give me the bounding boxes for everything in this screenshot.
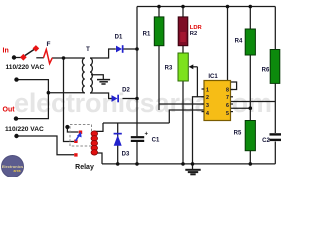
wire: R1 bottom vertical to pin3/pin4 lines: [158, 46, 160, 110]
switch blade: [25, 50, 34, 56]
svg-text:R5: R5: [234, 131, 242, 137]
wire: R2 top feed: [182, 7, 184, 18]
IC1 pin numbers left 1,2,3,4: [206, 88, 209, 117]
wire: center tap to ground: [91, 75, 103, 79]
node: top rail R2: [181, 5, 185, 9]
wire: R3 bottom to rail: [182, 81, 184, 164]
wire: relay output line horizontal: [103, 122, 169, 124]
svg-text:C2: C2: [262, 138, 270, 144]
wire: In upper terminal stub: [14, 57, 21, 59]
svg-text:D2: D2: [122, 88, 130, 94]
svg-text:F: F: [47, 41, 51, 48]
svg-text:In: In: [3, 48, 9, 55]
capacitor C1 (polarized): [131, 137, 144, 141]
svg-text:4: 4: [206, 111, 209, 117]
svg-text:1: 1: [206, 88, 209, 94]
wire: ground stem below rail: [192, 164, 194, 169]
wire: relay coil bottom to rail: [94, 153, 102, 164]
svg-text:2: 2: [206, 95, 209, 101]
node: top rail R1: [157, 5, 161, 9]
wire: secondary bottom to D2: [90, 93, 112, 99]
switch contact moving tip (red diamond): [33, 45, 40, 52]
svg-text:area: area: [14, 169, 21, 173]
wire: R1 top feed: [158, 7, 160, 18]
ground (main, below bottom rail): [185, 170, 200, 175]
node: fuse/hot junction: [62, 56, 66, 60]
relay NC contact (red): [79, 131, 82, 134]
wire: relay NC contact to dot terminal: [67, 129, 78, 133]
wire: jog up from output line to pin4 line: [169, 110, 204, 123]
wire: right border vertical (R6/C2 branch): [274, 7, 276, 50]
node: rail ground: [191, 162, 195, 166]
svg-text:R4: R4: [235, 39, 243, 45]
svg-text:7: 7: [226, 95, 229, 101]
node: D1 cathode junction: [135, 47, 139, 51]
node: Out upper terminal: [14, 116, 18, 120]
node: primary bottom junction: [47, 91, 51, 95]
wire: bottom ground rail: [102, 163, 275, 165]
wire: Out lower terminal to relay NO contact: [17, 136, 75, 155]
wire: In lower terminal to junction: [17, 80, 49, 93]
wire: pin3 line: [159, 103, 204, 105]
IC1 pin numbers right 8,7,6,5: [226, 88, 229, 117]
wire: R2 bottom to R3 top: [182, 46, 184, 53]
wire: R5 bottom to rail: [249, 151, 251, 164]
resistor R6: [270, 50, 280, 84]
svg-text:110/220 VAC: 110/220 VAC: [6, 64, 45, 71]
wire: D2 cathode to main vertical: [123, 98, 138, 100]
wire: R4 top feed: [249, 7, 251, 30]
node: Out lower terminal: [14, 134, 18, 138]
svg-text:Out: Out: [3, 107, 16, 114]
diode D3 (pointing up): [114, 133, 122, 146]
LDR R2 inner patch: [180, 32, 186, 42]
wire: pin2 node down to ground rail: [193, 97, 198, 164]
diode D2: [112, 95, 120, 103]
wire: pin8 feed from top rail: [228, 7, 237, 90]
potentiometer R3 body: [178, 53, 188, 81]
svg-text:D1: D1: [115, 35, 123, 41]
wire: right border below R6 to C2: [274, 83, 276, 133]
wire: mains hot drop to relay armature: [64, 58, 75, 142]
resistor R1: [154, 17, 164, 46]
svg-text:6: 6: [226, 103, 229, 109]
svg-text:5: 5: [226, 111, 229, 117]
wire: relay coil top to output line: [94, 123, 103, 131]
wire: D1 cathode to junction: [123, 48, 137, 50]
potentiometer R3 wiper arrowhead: [189, 64, 194, 69]
IC1 pin ticks: [202, 89, 234, 112]
wire: wiper drop to pin2: [197, 67, 204, 97]
wire: right border below C2 to bottom rail: [274, 142, 276, 164]
relay coil: [91, 131, 98, 155]
svg-text:T: T: [86, 47, 90, 53]
node: R4/R5 junction: [249, 106, 253, 110]
node: relay NC terminal dot: [65, 125, 69, 129]
wire: D3 branch vertical: [117, 123, 119, 164]
svg-text:R1: R1: [143, 32, 151, 38]
svg-text:Relay: Relay: [75, 164, 94, 171]
node: In upper terminal: [12, 55, 16, 59]
relay NO contact (red): [74, 153, 77, 156]
wire: top supply rail: [137, 6, 275, 8]
relay armature pivot contact (red): [74, 140, 77, 143]
LDR R2 body: [178, 17, 188, 46]
svg-text:110/220 VAC: 110/220 VAC: [5, 126, 44, 133]
svg-text:8: 8: [226, 88, 229, 94]
svg-text:D3: D3: [122, 152, 130, 158]
op-amp/timer IC1 body: [204, 81, 231, 121]
node: top rail R4: [249, 5, 253, 9]
wire: R4 bottom to junction and R5: [249, 55, 251, 121]
wire: switch to fuse segment: [36, 57, 44, 59]
wire: fuse to transformer primary top: [52, 57, 85, 59]
node: D2 cathode junction: [135, 97, 139, 101]
transformer T secondary coil: [90, 58, 92, 93]
diode D1: [116, 45, 124, 53]
svg-text:3: 3: [206, 103, 209, 109]
wire: pin5 line to R4/R5 junction: [231, 107, 251, 109]
wire: pot wiper arrow line: [190, 66, 198, 68]
wire: junction to transformer primary bottom: [48, 92, 84, 94]
svg-text:R3: R3: [165, 66, 173, 72]
svg-text:C1: C1: [152, 138, 160, 144]
relay armature blue arrow: [76, 132, 82, 141]
transformer T primary coil: [82, 58, 84, 93]
node: rail R5: [249, 162, 253, 166]
wire: pin6 line to C2 branch: [231, 101, 276, 103]
resistor R4: [245, 29, 255, 55]
fuse F (red zigzag): [44, 50, 53, 64]
capacitor C2: [270, 134, 282, 140]
resistor R5: [245, 121, 255, 151]
svg-text:R6: R6: [262, 68, 270, 74]
relay dashed enclosure: [70, 125, 92, 147]
svg-text:IC1: IC1: [208, 74, 218, 80]
switch contact fixed (red diamond): [20, 54, 27, 61]
wire: junction down to Out upper terminal: [16, 93, 48, 119]
node: rail D3: [116, 162, 120, 166]
logo circle bottom-left: [2, 156, 24, 178]
wire: C1 branch bottom: [136, 142, 138, 164]
svg-text:+: +: [145, 132, 149, 138]
wire: secondary top to D1: [90, 49, 116, 58]
node: top rail pin8: [226, 5, 230, 9]
wire: left vertical from top rail down to D1/D2 junction and C1: [136, 7, 138, 137]
svg-text:LDR: LDR: [190, 25, 203, 31]
node: rail C1: [135, 162, 139, 166]
node: rail R3: [181, 162, 185, 166]
svg-text:R2: R2: [190, 31, 197, 37]
ground (transformer center tap): [97, 80, 110, 84]
node: In lower terminal: [14, 77, 18, 81]
